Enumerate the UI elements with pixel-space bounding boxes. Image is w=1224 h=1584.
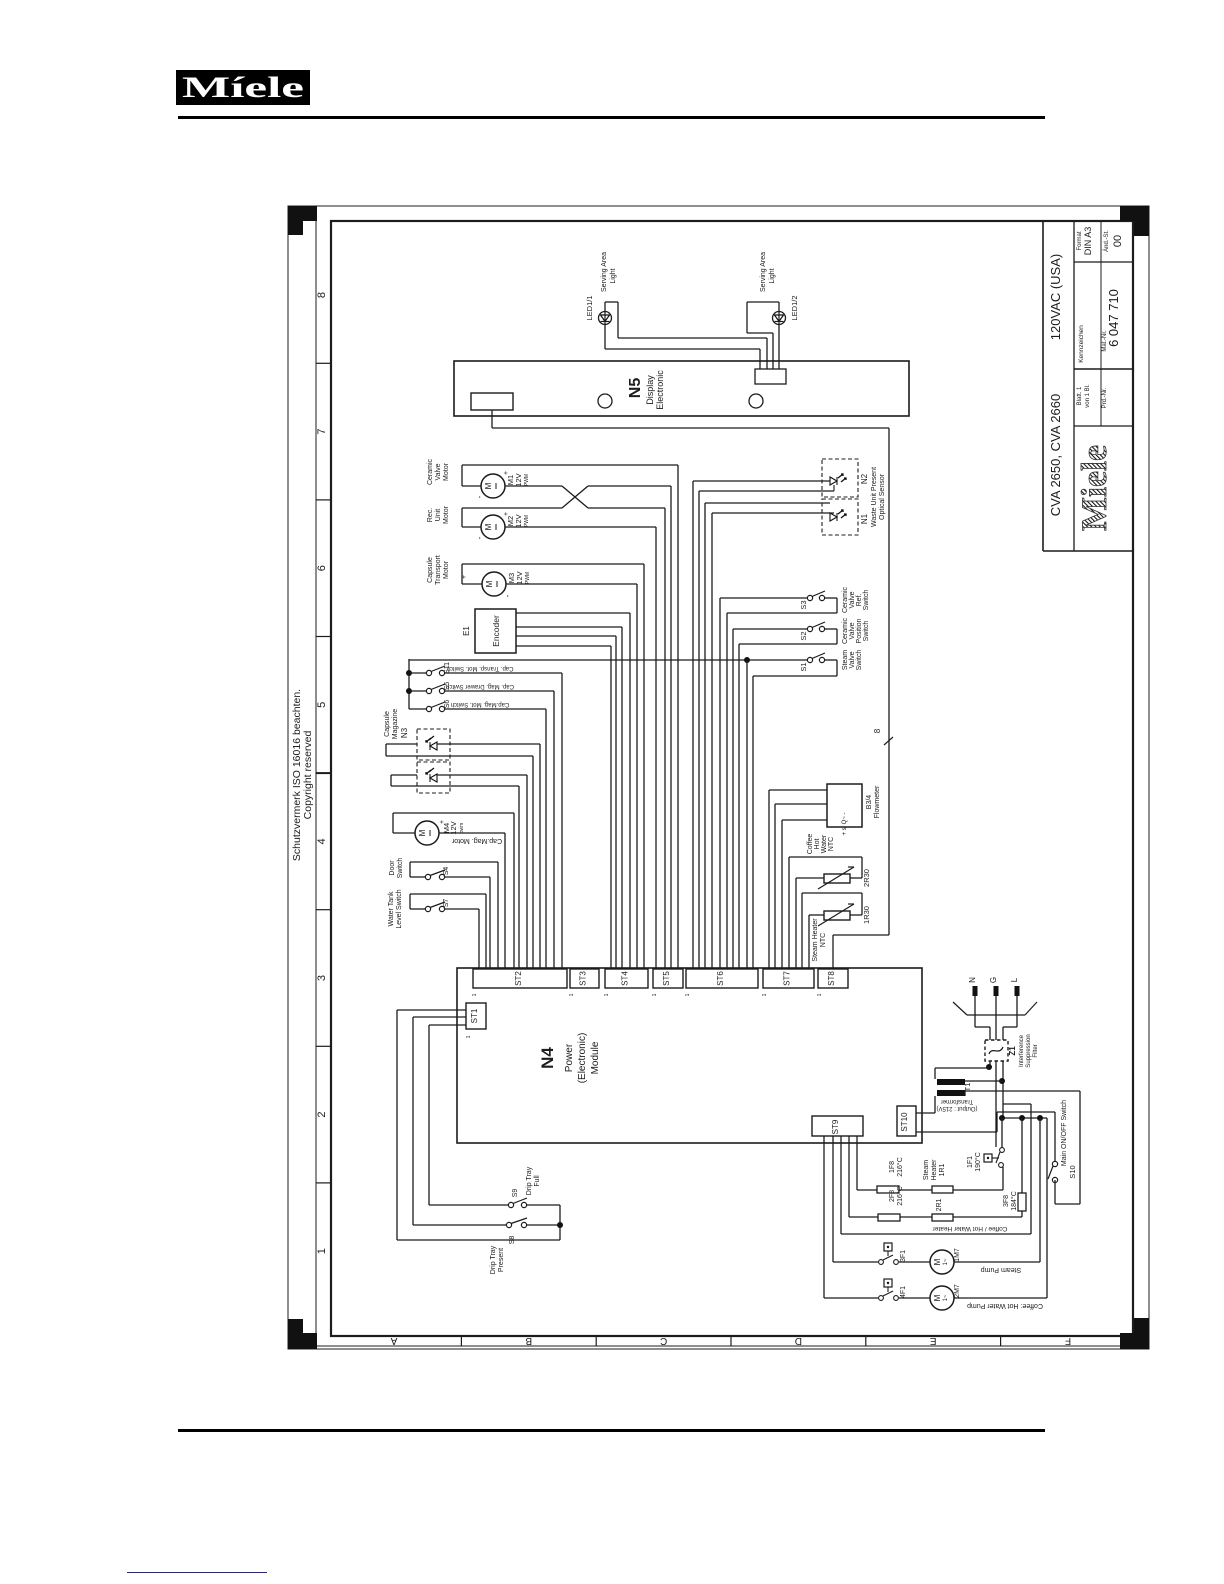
svg-text:+ si Q~ -: + si Q~ - xyxy=(842,812,848,835)
svg-text:Valve: Valve xyxy=(849,651,856,668)
svg-text:M: M xyxy=(484,523,493,530)
svg-text:Display: Display xyxy=(645,375,655,405)
svg-text:2F8: 2F8 xyxy=(889,1190,896,1202)
svg-text:12V: 12V xyxy=(514,514,523,527)
svg-text:1F1: 1F1 xyxy=(967,1156,974,1168)
svg-text:3: 3 xyxy=(316,975,328,981)
svg-text:12V: 12V xyxy=(449,821,458,834)
svg-text:Prd.-Nr.: Prd.-Nr. xyxy=(1102,387,1108,408)
svg-text:Light: Light xyxy=(769,268,776,283)
svg-text:G: G xyxy=(989,977,998,983)
svg-text:ST7: ST7 xyxy=(783,971,792,986)
svg-text:ST9: ST9 xyxy=(831,1119,840,1134)
svg-text:Heater: Heater xyxy=(931,1159,938,1181)
svg-text:4: 4 xyxy=(316,838,328,844)
svg-text:7: 7 xyxy=(316,429,328,435)
svg-text:+: + xyxy=(503,512,510,516)
svg-text:ST2: ST2 xyxy=(514,971,523,986)
svg-text:Switch: Switch xyxy=(863,621,870,642)
svg-text:S1: S1 xyxy=(799,662,808,671)
svg-text:pwm: pwm xyxy=(459,823,465,834)
svg-text:Coffee: Hot Water Pump: Coffee: Hot Water Pump xyxy=(967,1302,1043,1309)
svg-text:Electronic: Electronic xyxy=(655,370,665,410)
svg-text:Door: Door xyxy=(389,860,396,876)
svg-text:4F1: 4F1 xyxy=(900,1286,907,1298)
svg-text:Optical Sensor: Optical Sensor xyxy=(879,473,886,520)
svg-text:Cap. Transp. Mot. Switch: Cap. Transp. Mot. Switch xyxy=(446,665,513,671)
svg-text:Ceramic: Ceramic xyxy=(842,617,849,644)
svg-text:Full: Full xyxy=(534,1175,541,1187)
svg-text:Rec.: Rec. xyxy=(427,508,434,522)
svg-text:N3: N3 xyxy=(400,727,409,738)
svg-text:PWM: PWM xyxy=(524,474,530,486)
svg-text:Z1: Z1 xyxy=(1008,1046,1017,1056)
svg-text:L: L xyxy=(1010,977,1019,982)
svg-text:1: 1 xyxy=(569,993,575,996)
svg-text:N2: N2 xyxy=(860,473,869,484)
svg-text:Motor: Motor xyxy=(443,462,450,481)
svg-text:2: 2 xyxy=(316,1112,328,1118)
svg-text:Switch: Switch xyxy=(856,650,863,671)
svg-text:(Output : 215V): (Output : 215V) xyxy=(936,1105,977,1111)
svg-text:1F8: 1F8 xyxy=(889,1161,896,1173)
svg-text:(Electronic): (Electronic) xyxy=(577,1033,588,1084)
svg-text:Drip Tray: Drip Tray xyxy=(490,1245,497,1274)
svg-text:LED1/2: LED1/2 xyxy=(790,295,799,320)
svg-text:ST5: ST5 xyxy=(662,971,671,986)
svg-text:216°C: 216°C xyxy=(896,1186,904,1206)
svg-text:Cap.Mag. Mot. Switch: Cap.Mag. Mot. Switch xyxy=(451,701,510,707)
svg-text:Present: Present xyxy=(498,1248,505,1272)
svg-text:PWM: PWM xyxy=(525,572,531,584)
svg-text:1~: 1~ xyxy=(943,1258,949,1265)
svg-text:1: 1 xyxy=(472,993,478,996)
svg-text:-: - xyxy=(475,536,484,539)
svg-text:Motor: Motor xyxy=(443,560,450,579)
svg-text:Flowmeter: Flowmeter xyxy=(874,785,881,818)
svg-text:1M7: 1M7 xyxy=(954,1248,961,1262)
svg-text:Serving Area: Serving Area xyxy=(601,252,608,292)
svg-text:Valve: Valve xyxy=(849,622,856,639)
svg-text:Capsule: Capsule xyxy=(384,711,391,737)
svg-text:Hot: Hot xyxy=(814,839,821,850)
svg-text:Interference: Interference xyxy=(1019,1034,1025,1067)
svg-text:C: C xyxy=(660,1335,667,1346)
svg-text:S8: S8 xyxy=(509,1236,516,1245)
svg-text:S6: S6 xyxy=(444,700,451,709)
svg-text:M: M xyxy=(418,829,427,836)
svg-text:Steam: Steam xyxy=(842,650,849,670)
svg-text:ST10: ST10 xyxy=(900,1112,909,1132)
svg-text:Power: Power xyxy=(564,1043,575,1072)
svg-text:Unit: Unit xyxy=(435,509,442,522)
svg-text:Steam Heater: Steam Heater xyxy=(812,918,819,962)
svg-text:Ceramic: Ceramic xyxy=(427,458,434,485)
svg-text:8: 8 xyxy=(873,728,882,733)
svg-text:PWM: PWM xyxy=(524,515,530,527)
svg-text:2R30: 2R30 xyxy=(862,869,871,887)
svg-text:N1: N1 xyxy=(860,513,869,524)
svg-text:Cap.Mag. Motor: Cap.Mag. Motor xyxy=(451,837,502,844)
svg-text:8: 8 xyxy=(316,292,328,298)
svg-text:Waste Unit Present: Waste Unit Present xyxy=(871,467,878,527)
svg-text:1R30: 1R30 xyxy=(862,906,871,924)
svg-text:T1: T1 xyxy=(963,1083,972,1092)
svg-text:216°C: 216°C xyxy=(896,1157,904,1177)
svg-text:1: 1 xyxy=(817,993,823,996)
svg-text:Steam: Steam xyxy=(923,1160,930,1180)
svg-text:Switch: Switch xyxy=(863,590,870,611)
svg-text:Main ON/OFF Switch: Main ON/OFF Switch xyxy=(1061,1100,1068,1166)
svg-text:M: M xyxy=(933,1294,942,1301)
svg-text:Encoder: Encoder xyxy=(491,615,501,647)
svg-text:1~: 1~ xyxy=(943,1294,949,1301)
svg-text:Miele: Miele xyxy=(1074,445,1114,531)
svg-text:M: M xyxy=(933,1258,942,1265)
svg-text:Coffee / Hot Water Heater: Coffee / Hot Water Heater xyxy=(932,1225,1008,1232)
svg-text:A: A xyxy=(390,1335,397,1346)
svg-text:ST1: ST1 xyxy=(470,1008,479,1023)
svg-text:Switch: Switch xyxy=(397,858,404,879)
svg-text:S9: S9 xyxy=(512,1189,519,1198)
svg-text:+: + xyxy=(503,471,510,475)
svg-text:S10: S10 xyxy=(1068,1165,1077,1178)
svg-text:Steam Pump: Steam Pump xyxy=(981,1266,1022,1273)
svg-text:S3: S3 xyxy=(799,600,808,609)
svg-text:Copyright reserved: Copyright reserved xyxy=(302,730,314,819)
svg-text:Änd.-St.: Änd.-St. xyxy=(1103,230,1110,252)
svg-text:Suppression: Suppression xyxy=(1026,1034,1032,1067)
svg-text:Magazine: Magazine xyxy=(392,709,399,739)
svg-text:DIN A3: DIN A3 xyxy=(1083,227,1093,256)
svg-text:ST6: ST6 xyxy=(716,971,725,986)
svg-text:Coffee: Coffee xyxy=(807,834,814,855)
svg-text:D: D xyxy=(795,1335,802,1346)
svg-text:-: - xyxy=(475,495,484,498)
svg-text:Transport: Transport xyxy=(435,555,442,585)
svg-text:Ref.: Ref. xyxy=(856,594,863,607)
svg-text:S7: S7 xyxy=(443,899,450,908)
svg-text:Filter: Filter xyxy=(1033,1044,1039,1057)
svg-text:2R1: 2R1 xyxy=(936,1198,943,1211)
svg-text:Valve: Valve xyxy=(435,463,442,480)
svg-text:12V: 12V xyxy=(515,571,524,584)
svg-text:190°C: 190°C xyxy=(974,1152,982,1172)
svg-text:6: 6 xyxy=(316,565,328,571)
svg-text:Drip Tray: Drip Tray xyxy=(526,1166,533,1195)
svg-text:+: + xyxy=(439,820,446,824)
svg-text:M: M xyxy=(485,580,494,587)
svg-text:1R1: 1R1 xyxy=(939,1163,946,1176)
svg-text:3F8: 3F8 xyxy=(1003,1195,1010,1207)
svg-text:F: F xyxy=(1065,1335,1071,1346)
svg-text:1: 1 xyxy=(762,993,768,996)
svg-text:6 047 710: 6 047 710 xyxy=(1106,289,1121,347)
svg-text:5: 5 xyxy=(316,702,328,708)
svg-text:3F1: 3F1 xyxy=(900,1250,907,1262)
svg-text:Ceramic: Ceramic xyxy=(842,586,849,613)
svg-text:E1: E1 xyxy=(462,626,471,636)
svg-text:ST3: ST3 xyxy=(579,971,588,986)
svg-text:E: E xyxy=(930,1335,937,1346)
svg-text:184°C: 184°C xyxy=(1010,1191,1018,1211)
svg-text:NTC: NTC xyxy=(828,837,835,851)
svg-text:Transformer: Transformer xyxy=(941,1098,973,1104)
svg-text:Light: Light xyxy=(610,268,617,283)
svg-text:Motor: Motor xyxy=(443,505,450,524)
svg-text:NTC: NTC xyxy=(820,933,827,947)
svg-text:M: M xyxy=(484,482,493,489)
svg-text:S2: S2 xyxy=(799,631,808,640)
svg-text:LED1/1: LED1/1 xyxy=(585,295,594,320)
svg-text:N: N xyxy=(968,977,977,983)
svg-text:ST8: ST8 xyxy=(827,971,836,986)
svg-text:00: 00 xyxy=(1112,235,1124,247)
svg-text:Position: Position xyxy=(856,618,863,643)
svg-text:Kennzeichen: Kennzeichen xyxy=(1078,325,1085,363)
svg-text:1: 1 xyxy=(685,993,691,996)
svg-text:N4: N4 xyxy=(538,1047,557,1069)
svg-text:N5: N5 xyxy=(627,378,644,399)
svg-text:Cap. Mag. Drawer Switch: Cap. Mag. Drawer Switch xyxy=(446,683,514,689)
svg-text:Serving Area: Serving Area xyxy=(760,252,767,292)
svg-text:Module: Module xyxy=(590,1041,601,1074)
svg-text:2M7: 2M7 xyxy=(954,1284,961,1298)
svg-text:Water: Water xyxy=(821,834,828,853)
svg-text:CVA 2650, CVA 2660: CVA 2650, CVA 2660 xyxy=(1048,394,1063,516)
svg-text:Blatt. 1: Blatt. 1 xyxy=(1077,386,1083,405)
svg-text:120VAC (USA): 120VAC (USA) xyxy=(1048,254,1063,340)
svg-text:1: 1 xyxy=(316,1248,328,1254)
svg-text:von 1 Bl.: von 1 Bl. xyxy=(1085,384,1091,408)
svg-text:-: - xyxy=(503,594,512,597)
svg-text:Valve: Valve xyxy=(849,591,856,608)
svg-text:+: + xyxy=(461,575,468,579)
svg-text:ST4: ST4 xyxy=(621,971,630,986)
svg-text:1: 1 xyxy=(652,993,658,996)
svg-text:B: B xyxy=(525,1335,532,1346)
svg-text:B3/4: B3/4 xyxy=(866,795,873,810)
svg-text:1: 1 xyxy=(466,1035,472,1038)
svg-text:1: 1 xyxy=(604,993,610,996)
svg-text:Capsule: Capsule xyxy=(427,557,434,583)
svg-text:S4: S4 xyxy=(443,867,450,876)
svg-text:Level Switch: Level Switch xyxy=(396,889,403,928)
svg-text:Water Tank: Water Tank xyxy=(388,891,395,927)
svg-text:12V: 12V xyxy=(514,473,523,486)
